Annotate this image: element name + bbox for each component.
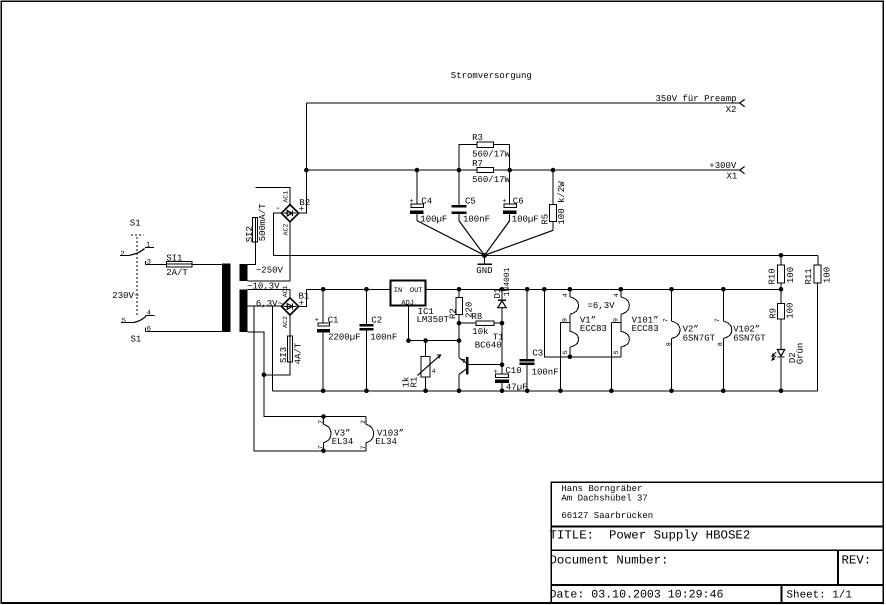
svg-text:+: + (410, 198, 414, 206)
junction bottom rail C10 (500, 389, 505, 394)
svg-text:AC1: AC1 (282, 285, 289, 297)
svg-text:5: 5 (562, 350, 569, 354)
svg-text:560/17W: 560/17W (472, 175, 510, 185)
transformer TR1 primary bar (222, 264, 230, 332)
svg-text:+: + (299, 205, 304, 215)
svg-text:C2: C2 (371, 315, 382, 325)
title block frame (551, 482, 883, 602)
wire 10.3V terminal to B1 AC1 (248, 289, 290, 297)
svg-text:D1: D1 (493, 288, 503, 299)
resistor R5 (550, 205, 557, 222)
svg-text:Date: 03.10.2003 10:29:46: Date: 03.10.2003 10:29:46 (550, 589, 724, 602)
svg-text:+: + (315, 317, 319, 325)
tube heater V3 bump (324, 424, 331, 442)
svg-text:4: 4 (562, 293, 569, 297)
svg-text:100µF: 100µF (512, 215, 539, 225)
junction C3 top (525, 287, 530, 292)
svg-text:6SN7GT: 6SN7GT (733, 334, 766, 344)
svg-text:100µF: 100µF (420, 215, 447, 225)
connector X1 chevron (740, 167, 745, 174)
bridge rectifier B1 (281, 298, 298, 315)
svg-text:+: + (502, 198, 506, 206)
wire D2 bottom lead (780, 358, 782, 391)
svg-text:AC2: AC2 (282, 224, 289, 236)
wire C6 leads (509, 170, 511, 221)
wire R9 leads (780, 289, 782, 349)
tube heater V2 bump (672, 321, 681, 338)
wire V2 heater stubs (671, 289, 673, 391)
junction C4 top (415, 168, 420, 173)
wire R3 parallel branch (459, 145, 510, 171)
junction bottom rail V1 tap (558, 389, 563, 394)
wire V3 heater stubs (323, 417, 325, 451)
svg-text:X2: X2 (726, 105, 737, 115)
junction bottom rail C2 (364, 389, 369, 394)
wire V103 heater stubs (365, 417, 367, 451)
junction R3/C5 (457, 168, 462, 173)
svg-text:Hans Borngräber: Hans Borngräber (561, 484, 642, 494)
svg-text:9: 9 (562, 318, 569, 322)
svg-text:GND: GND (476, 266, 492, 276)
svg-text:6SN7GT: 6SN7GT (683, 334, 716, 344)
wire R1 pot top lead (425, 341, 427, 357)
svg-text:2A/T: 2A/T (166, 268, 188, 278)
svg-text:IN: IN (394, 287, 402, 295)
wire R11 top lead (817, 255, 819, 265)
svg-text:100nF: 100nF (370, 332, 397, 342)
bridge rectifier B2 (281, 205, 298, 222)
wire R10 leads (780, 255, 782, 289)
junction GND star (482, 253, 487, 258)
resistor R3 (477, 142, 493, 147)
ground symbol GND (478, 255, 493, 264)
junction T1 base node (500, 362, 505, 367)
wire C5 leads (458, 170, 460, 221)
wire B2 plus to rails (299, 103, 307, 213)
svg-text:~250V: ~250V (256, 266, 284, 276)
junction C1 top (321, 287, 326, 292)
svg-text:2200µF: 2200µF (328, 332, 360, 342)
wire V101 heater stubs (620, 289, 622, 357)
wire GND rail (274, 254, 818, 256)
svg-text:EL34: EL34 (375, 437, 397, 447)
junction bottom rail V2 (669, 389, 674, 394)
junction R5 top (551, 168, 556, 173)
svg-text:7: 7 (714, 318, 721, 322)
regulator IC1 LM350T (391, 281, 426, 308)
junction R10 bottom (779, 287, 784, 292)
wire R5 leads (552, 170, 554, 230)
junction ADJ corner (406, 338, 411, 343)
svg-text:500mA/T: 500mA/T (258, 203, 268, 241)
wire C1 leads (322, 289, 324, 391)
capacitor C4 (410, 198, 424, 214)
svg-text:100 k/2W: 100 k/2W (557, 181, 567, 225)
svg-text:7: 7 (662, 318, 669, 322)
capacitor C3 (520, 359, 535, 365)
svg-text:47µF: 47µF (506, 382, 528, 392)
junction V3 top (321, 414, 326, 419)
svg-text:EL34: EL34 (332, 437, 354, 447)
resistor R8 (476, 321, 494, 326)
svg-text:TITLE: Power Supply HBOSE2: TITLE: Power Supply HBOSE2 (550, 528, 751, 542)
svg-text:C3: C3 (532, 349, 543, 359)
svg-text:8: 8 (665, 342, 672, 346)
wire B1 plus to LV rail (299, 289, 307, 306)
svg-text:2: 2 (121, 251, 125, 259)
wire R2 to R8 node down (458, 323, 460, 341)
wire T1 collector (459, 369, 467, 375)
svg-text:R3: R3 (472, 133, 483, 143)
wire C10 leads (501, 365, 503, 391)
junction D1 top (500, 287, 505, 292)
junction V1 pin4 (568, 287, 573, 292)
svg-text:100: 100 (786, 267, 796, 283)
transformer TR1 secondary 10.3V bar (239, 289, 247, 332)
wire B2 minus to GND rail (274, 213, 282, 255)
svg-text:100: 100 (822, 267, 832, 283)
junction V2 pin7 (669, 287, 674, 292)
svg-text:-: - (275, 204, 280, 214)
junction pot top (423, 338, 428, 343)
svg-text:C5: C5 (465, 196, 476, 206)
svg-text:R10: R10 (768, 268, 778, 284)
svg-text:7: 7 (317, 445, 324, 449)
wire 6.3V tap (248, 306, 282, 391)
svg-text:9: 9 (613, 318, 620, 322)
svg-text:+: + (299, 299, 304, 309)
svg-text:230V~: 230V~ (112, 291, 139, 301)
svg-text:10k: 10k (472, 327, 488, 337)
junction bottom rail C3 (525, 389, 530, 394)
svg-text:ADJ: ADJ (401, 299, 414, 307)
wire R11 bottom lead (817, 283, 819, 391)
junction V101 pin4 (619, 287, 624, 292)
LED D2 (772, 350, 785, 361)
svg-text:Am Dachshübel 37: Am Dachshübel 37 (561, 494, 647, 504)
capacitor C10 (494, 368, 509, 382)
capacitor C1 (315, 317, 330, 332)
wire 250V top terminal through SI2 to B2 AC1 (248, 188, 290, 265)
wire V1 center tap (561, 322, 570, 390)
junction V102 pin7 (721, 287, 726, 292)
svg-text:8: 8 (717, 342, 724, 346)
resistor R2 (456, 297, 462, 314)
svg-text:~10,3V: ~10,3V (247, 281, 280, 291)
svg-text:AC2: AC2 (282, 316, 289, 328)
wire 6.3V to EL34 bottom (254, 306, 366, 451)
svg-text:100: 100 (785, 303, 795, 319)
junction R2 top (457, 287, 462, 292)
svg-text:6: 6 (147, 325, 151, 333)
wire heater return (544, 289, 621, 357)
wire V101 center tap (611, 322, 620, 390)
svg-text:5: 5 (122, 317, 126, 325)
capacitor C2 (360, 324, 374, 330)
wire LV positive rail (307, 288, 782, 290)
svg-text:Grün: Grün (796, 343, 806, 365)
junction R8/D1 node (500, 321, 505, 326)
svg-text:S1: S1 (131, 335, 142, 345)
switch S1 upper pole (120, 235, 154, 316)
svg-text:Stromversorgung: Stromversorgung (451, 71, 532, 81)
connector X2 chevron (740, 99, 745, 106)
wire C4 leads (416, 170, 418, 221)
svg-text:R1: R1 (410, 377, 420, 388)
wire +300V rail left segment (306, 169, 477, 171)
svg-text:+300V: +300V (709, 161, 737, 171)
junction bottom rail C1 (321, 389, 326, 394)
wire mains lower to primary (146, 330, 222, 332)
svg-text:6,3V~: 6,3V~ (256, 299, 283, 309)
svg-text:ECC83: ECC83 (632, 324, 659, 334)
junction bottom rail V101 tap (609, 389, 614, 394)
capacitor C6 (502, 198, 516, 214)
wire C3 leads (526, 289, 528, 391)
svg-text:BC640: BC640 (475, 341, 502, 351)
resistor R11 (814, 265, 821, 283)
svg-text:R9: R9 (768, 308, 778, 319)
svg-text:7: 7 (360, 445, 367, 449)
junction bottom rail pot (423, 389, 428, 394)
wire V1 heater stubs (569, 289, 571, 357)
svg-text:R11: R11 (804, 268, 814, 284)
wire IC1 ADJ lead (409, 306, 460, 341)
junction R10 top (779, 253, 784, 258)
svg-text:OUT: OUT (410, 287, 423, 295)
wire B1 AC2 through SI3 (264, 315, 290, 375)
svg-text:4: 4 (432, 368, 436, 375)
svg-text:5: 5 (613, 350, 620, 354)
tube heater V101 bumps (621, 297, 630, 347)
svg-text:1N4001: 1N4001 (503, 267, 512, 296)
resistor R10 (778, 265, 785, 283)
transformer TR1 secondary 250V bar (239, 264, 247, 281)
junction V3 bottom (321, 449, 326, 454)
junction R2/R8 node (457, 321, 462, 326)
resistor R7 (477, 168, 493, 173)
svg-text:66127 Saarbrücken: 66127 Saarbrücken (561, 511, 653, 521)
junction bottom rail V102 (721, 389, 726, 394)
resistor R9 (778, 304, 785, 319)
svg-text:X1: X1 (727, 171, 738, 181)
fuse SI1 (167, 262, 192, 267)
junction R3/C6 (507, 168, 512, 173)
svg-text:AC1: AC1 (282, 191, 289, 203)
wire V102 heater stubs (722, 289, 724, 391)
wire 350V rail to X2 (306, 102, 740, 104)
wire R2 leads (458, 289, 460, 323)
svg-text:100nF: 100nF (532, 368, 559, 378)
tube heater V102 bump (723, 321, 732, 338)
tube heater V103 bump (366, 424, 373, 442)
wire C2 leads (366, 289, 368, 391)
diode D1 1N4001 (498, 300, 506, 308)
wire winding bottom to EL34 top (248, 332, 367, 417)
junction C2 top (364, 287, 369, 292)
svg-text:350V für Preamp: 350V für Preamp (656, 94, 737, 104)
junction bottom rail D2 (779, 389, 784, 394)
fuse SI2 (252, 217, 257, 242)
svg-text:+: + (494, 368, 498, 376)
svg-text:=6,3V: =6,3V (588, 301, 616, 311)
svg-text:100nF: 100nF (463, 215, 490, 225)
wire +300V rail right segment to X1 (493, 169, 740, 171)
svg-text:2: 2 (317, 420, 324, 424)
svg-text:ECC83: ECC83 (580, 324, 607, 334)
wire R1 pot bottom lead (425, 377, 427, 391)
tube heater V1 bumps (570, 297, 579, 347)
svg-text:S1: S1 (130, 219, 141, 229)
svg-text:Document Number:: Document Number: (550, 554, 669, 568)
fuse SI3 (287, 336, 292, 362)
wire D1 leads (501, 289, 503, 364)
potentiometer R1 (418, 355, 441, 377)
wire T1 base (469, 364, 503, 366)
wire R8 leads (459, 322, 502, 324)
junction bottom rail T1 (457, 389, 462, 394)
svg-text:REV:: REV: (842, 554, 872, 568)
junction SI3 return (262, 373, 267, 378)
wire LV bottom rail (272, 390, 817, 392)
junction V1 pin5 (568, 355, 573, 360)
svg-text:2: 2 (360, 420, 367, 424)
junction +300V at B2 (304, 168, 309, 173)
transistor T1 BC640 (462, 357, 469, 374)
switch S1 lower pole (121, 315, 155, 331)
svg-text:4: 4 (613, 293, 620, 297)
wire B2 AC2 to 250V bottom terminal (248, 222, 290, 281)
wire mains to SI1 (146, 264, 222, 266)
junction heater return top (542, 287, 547, 292)
svg-text:Sheet: 1/1: Sheet: 1/1 (787, 590, 853, 602)
capacitor C5 (452, 205, 467, 214)
svg-text:4: 4 (147, 310, 151, 318)
wire T1 emitter (458, 341, 460, 358)
svg-text:3: 3 (147, 258, 151, 266)
junction emitter node (457, 338, 462, 343)
svg-text:LM350T: LM350T (417, 315, 450, 325)
svg-text:4A/T: 4A/T (294, 342, 304, 364)
